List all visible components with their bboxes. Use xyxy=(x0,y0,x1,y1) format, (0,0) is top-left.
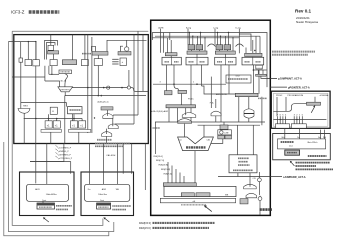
stub bar2 to box5 xyxy=(97,55,99,59)
regfile inner box xyxy=(278,139,326,149)
jumpwait cluster wires xyxy=(254,69,267,71)
arrow bottom center xyxy=(205,206,212,211)
long mux bar gray xyxy=(166,105,196,108)
xor box with circle xyxy=(218,130,232,135)
svg-text:ADR: ADR xyxy=(35,188,40,191)
wide input decode box xyxy=(164,186,236,196)
tiny label under bar xyxy=(181,204,206,206)
wire v x48.9 into decode box xyxy=(48,66,50,75)
tiny label left edge xyxy=(153,127,161,129)
wires from pairs up xyxy=(48,114,50,121)
arc wire between groups 1-2 xyxy=(208,44,216,47)
wire corner x107 to y40.3 xyxy=(107,40,147,51)
register file block border xyxy=(273,134,331,160)
rom labels top xyxy=(276,94,329,97)
gray latch bar 1 xyxy=(48,51,59,54)
footnote line 1 xyxy=(139,222,215,225)
arrow below B xyxy=(104,218,109,222)
bottom wide bar xyxy=(160,198,235,203)
rom cell box 2 xyxy=(291,124,306,128)
wire loop x91-95 xyxy=(92,46,96,51)
free stack text xyxy=(112,59,118,64)
svg-text:RAM[15:0]: RAM[15:0] xyxy=(139,222,151,225)
wire s-curve xyxy=(273,104,306,112)
note text mid xyxy=(95,143,130,146)
svg-text:ADR: ADR xyxy=(102,188,107,191)
wire v x134 xyxy=(133,35,135,124)
mux dome cascade 3 xyxy=(102,132,112,137)
svg-text:INS[15:8]: INS[15:8] xyxy=(161,169,171,171)
INS spine wire xyxy=(155,122,157,154)
rev label Rev 0.1 xyxy=(295,9,318,24)
mux trapezoid xyxy=(58,87,73,92)
regfile drop wires from rom xyxy=(285,128,325,139)
wire h y101 xyxy=(21,103,67,107)
mux dome right xyxy=(244,109,254,113)
register cell box 6b xyxy=(120,58,126,66)
wire into latch from top xyxy=(50,35,52,46)
wire v x91.9 xyxy=(91,37,93,133)
mux dome alu-in 2 xyxy=(178,119,192,124)
label right of B latch xyxy=(112,206,131,210)
rom vert wires xyxy=(277,97,286,116)
dash text bottom right of left block xyxy=(97,139,112,141)
small latch box top xyxy=(48,45,54,50)
rom write bar xyxy=(307,102,321,105)
feedback wire outer left 3 xyxy=(4,142,109,236)
wire inside A xyxy=(42,201,44,203)
label right of A latch xyxy=(56,206,72,210)
mux dome cascade 2 xyxy=(108,124,118,129)
svg-text:Rev 0.1: Rev 0.1 xyxy=(295,9,312,14)
svg-text:CAL-EXH: CAL-EXH xyxy=(106,154,116,157)
svg-text:A-HB: A-HB xyxy=(158,26,164,29)
wire h y87.6 xyxy=(72,87,127,89)
small box under group 3 xyxy=(256,65,262,69)
register cell box 5 xyxy=(94,59,102,66)
feedback wire outer left 2 xyxy=(8,42,113,232)
wire v x72 xyxy=(71,35,73,60)
wire top thin bus left xyxy=(12,30,148,32)
svg-text:PR-NC: PR-NC xyxy=(276,95,283,97)
svg-text:pJUMPWAIT_ACT-A: pJUMPWAIT_ACT-A xyxy=(278,78,302,81)
wire pc bar to mux bar xyxy=(181,94,183,105)
svg-text:A-0B+(26+1): A-0B+(26+1) xyxy=(98,100,109,103)
arrow below ram box xyxy=(291,162,295,166)
wire v x131.7 xyxy=(131,144,133,174)
wires into note box xyxy=(237,125,239,155)
label 8bit adder xyxy=(186,146,206,148)
svg-text:REG: REG xyxy=(23,106,28,108)
operation block label xyxy=(260,208,273,211)
wire stub bar3 xyxy=(120,46,123,51)
decoder down wires xyxy=(72,114,74,121)
register cell box row: box2 xyxy=(33,60,40,66)
svg-text:pCTRLREG_P: pCTRLREG_P xyxy=(59,158,73,160)
svg-text:INS[15:0]: INS[15:0] xyxy=(154,156,164,158)
mux dome bottom-left xyxy=(18,109,30,114)
wire v REG chain xyxy=(20,62,22,108)
mux dome pla xyxy=(211,111,221,116)
bus line y37.8 xyxy=(152,37,239,39)
pin drop wires xyxy=(278,116,303,124)
ALU adder trapezoid xyxy=(178,137,214,151)
wire h y95.6 xyxy=(65,95,146,97)
wire h y118.6 with junction dots xyxy=(24,118,82,120)
svg-text:pOUTREG_P: pOUTREG_P xyxy=(59,147,72,149)
svg-text:ICF3-Z: ICF3-Z xyxy=(11,10,25,15)
svg-text:10bit×4096w: 10bit×4096w xyxy=(46,193,57,196)
sJMP dash xyxy=(258,97,267,99)
INS drop wires with arrows xyxy=(168,162,184,183)
small gray boxes carry xyxy=(218,135,225,139)
wire v x87-88 pair xyxy=(87,35,89,133)
wire v x145.3 xyxy=(144,144,146,191)
memory note box xyxy=(229,155,257,173)
junction dot y87 xyxy=(103,87,105,89)
wire bar up xyxy=(314,97,316,102)
wire mux down xyxy=(64,92,66,96)
wire circle2 stem xyxy=(128,70,130,86)
inner and box 1 xyxy=(181,193,194,197)
INS labels stack xyxy=(154,156,172,176)
regfile top labels xyxy=(282,137,327,139)
register group 2 xyxy=(215,45,236,65)
circle stem xyxy=(126,40,128,47)
bullet notes right xyxy=(296,163,334,170)
arc wire between groups 2-3 xyxy=(236,44,244,47)
svg-text:B-reg: B-reg xyxy=(186,26,192,29)
register group 0 xyxy=(162,53,181,65)
register block label xyxy=(308,155,327,157)
bus line y32.5 xyxy=(153,33,268,88)
svg-text:C-reg: C-reg xyxy=(213,26,219,29)
wire mux output long xyxy=(64,96,66,144)
register cell box row: box1 xyxy=(25,60,32,66)
memory block A border xyxy=(20,172,75,216)
note top-right two lines xyxy=(272,52,315,55)
gray bar small left of pc boxes xyxy=(165,91,173,95)
RAM box xyxy=(285,150,300,155)
stub bar1 to box3 xyxy=(53,54,55,60)
right main block border xyxy=(151,20,271,215)
signal sJUMPADR label xyxy=(218,176,306,179)
small gray box bottom xyxy=(240,199,248,204)
svg-text:8bit×128ch: 8bit×128ch xyxy=(308,141,318,144)
gray latch bar 3 xyxy=(118,52,131,56)
svg-text:PROGRAM-ROM: PROGRAM-ROM xyxy=(288,94,304,97)
wire box1 up xyxy=(27,42,29,60)
svg-text:30..26: 30..26 xyxy=(60,81,67,83)
wire v x44.9 to mux xyxy=(44,66,46,81)
junction dots buses xyxy=(189,32,256,51)
reg drops down xyxy=(167,65,260,122)
out latch box A xyxy=(37,203,55,209)
box top-right in right block xyxy=(226,75,251,83)
bar under pair 2 xyxy=(69,130,91,133)
wire box5 down xyxy=(97,66,99,96)
wire cascade verticals xyxy=(107,110,109,116)
wide gray register box xyxy=(62,60,76,65)
bus h y84.2 xyxy=(153,83,226,85)
left main block border xyxy=(14,35,149,144)
clock circle xyxy=(125,47,129,51)
bus drop wires xyxy=(164,33,261,54)
register group stubs xyxy=(171,40,253,57)
wire jog after circle xyxy=(131,88,149,92)
junction dot cascade xyxy=(94,117,95,118)
register cell box 3 xyxy=(50,60,57,66)
wire box4 up xyxy=(84,35,86,60)
junction circle mid xyxy=(107,86,110,89)
wire jog center xyxy=(202,86,237,94)
signal pJUMPWAIT label xyxy=(267,78,302,81)
bus line y36.2 xyxy=(155,35,260,37)
xor circle cs xyxy=(258,178,262,182)
wire bus y125.2 xyxy=(198,124,260,126)
wires to alu xyxy=(184,124,186,138)
program ROM block inner frame xyxy=(273,93,328,126)
decoder box with text xyxy=(68,107,83,114)
pc gray bar xyxy=(178,90,187,93)
adr bar down wires xyxy=(238,97,240,122)
junction circle mid 2 xyxy=(127,86,130,89)
junction dot decode xyxy=(51,74,52,75)
wire v x21 xyxy=(20,42,22,58)
mux dome cascade 1 xyxy=(103,114,113,119)
wire v x138 xyxy=(137,31,139,115)
s-bend wire to pc bar xyxy=(174,84,178,90)
inner and box 2 xyxy=(196,193,210,197)
wire xor down to alu xyxy=(211,139,223,143)
svg-text:sJUMPADR_ACT-A: sJUMPADR_ACT-A xyxy=(283,176,306,179)
drop wires to block B xyxy=(90,144,118,185)
decode box above mux xyxy=(59,70,72,74)
small box o on wire xyxy=(19,58,23,62)
wire h y41.6 xyxy=(8,42,36,60)
register group 1 xyxy=(186,45,208,65)
wire mux bar drops xyxy=(168,108,170,122)
wire loop outer xyxy=(45,41,58,60)
wire v x123 xyxy=(122,144,124,174)
latch bar mid xyxy=(101,107,113,110)
svg-text:PCNC: PCNC xyxy=(188,98,194,100)
feedback wire outer left 1 xyxy=(12,31,103,225)
wires bars down xyxy=(50,132,52,143)
instruction decoder box small xyxy=(50,107,57,114)
regfile text xyxy=(281,141,294,143)
junction dots y41.6 xyxy=(28,41,29,42)
register cell box 4 xyxy=(82,60,89,66)
svg-text:A-0B+CL(B,0)+A-N2: A-0B+CL(B,0)+A-N2 xyxy=(151,110,168,113)
bus labels A B C D xyxy=(158,26,241,29)
svg-text:pINREG_P: pINREG_P xyxy=(59,151,70,153)
footnote line 2 xyxy=(139,227,209,230)
svg-text:INS[15:8]: INS[15:8] xyxy=(159,165,169,167)
gray latch bar 2 xyxy=(92,52,108,56)
wire v x36 long xyxy=(35,66,37,183)
junction dots on rom bus xyxy=(280,119,281,120)
program ROM block border xyxy=(271,91,330,128)
wire to pla dome xyxy=(210,77,212,108)
input small box 2 xyxy=(200,188,231,192)
wire s-curve box to mux xyxy=(65,74,68,87)
wire bus y122 xyxy=(155,121,265,123)
rom pin digits xyxy=(277,115,304,117)
wire from mgm box down xyxy=(237,173,239,177)
rom cell box 1 xyxy=(276,124,290,128)
svg-text:Dout: Dout xyxy=(100,199,104,202)
register group 3 xyxy=(242,53,264,65)
adder box pair 2 xyxy=(71,121,78,128)
step wire from left block bottom xyxy=(30,144,64,162)
circle bottom xyxy=(258,197,262,201)
rom bus line xyxy=(273,119,326,121)
svg-text:DRA[15:0]: DRA[15:0] xyxy=(139,227,151,230)
svg-text:16bit×1kw: 16bit×1kw xyxy=(98,193,107,196)
svg-text:pPOINTER_ACT-A: pPOINTER_ACT-A xyxy=(288,86,310,89)
label drop wires xyxy=(161,29,240,54)
wire alu output xyxy=(194,151,196,187)
bar under pair 1 xyxy=(41,130,61,133)
bus corner right xyxy=(239,34,251,51)
arrow below A xyxy=(44,218,49,222)
gray bar right adr xyxy=(235,93,258,96)
arrow into bar xyxy=(311,106,315,112)
svg-text:pSYSREG_P: pSYSREG_P xyxy=(59,154,72,156)
svg-text:Dout: Dout xyxy=(289,145,293,148)
title ICF3-Z zentai block zu xyxy=(11,10,59,15)
svg-text:D-reg: D-reg xyxy=(236,26,242,29)
four p-signal labels xyxy=(55,145,72,160)
gray box above xor xyxy=(220,125,228,129)
wire loop inner xyxy=(47,43,56,60)
svg-text:INS[7:0]: INS[7:0] xyxy=(156,160,164,162)
svg-text:Cin: Cin xyxy=(179,139,182,141)
rounded ram box B xyxy=(85,184,130,201)
INS bus bar xyxy=(163,183,196,186)
svg-text:INS[7:4]: INS[7:4] xyxy=(164,173,172,175)
dome d1 xyxy=(244,184,257,189)
signal pPOINTER label xyxy=(270,86,310,89)
input small box 1 xyxy=(174,188,189,192)
wires bottom right xyxy=(250,172,260,215)
wire bar to dome xyxy=(185,108,187,115)
svg-text:sPGM-MA: sPGM-MA xyxy=(320,94,329,97)
rounded ram box A xyxy=(27,184,69,201)
wire v x143 xyxy=(142,35,144,92)
mux dome alu-in 1 xyxy=(182,113,196,118)
label right 2-SFT xyxy=(256,67,262,69)
wire h y77 xyxy=(12,76,45,78)
memory block B border xyxy=(81,172,134,216)
svg-text:Naoki Hirayama: Naoki Hirayama xyxy=(296,20,318,24)
out latch box B xyxy=(97,203,111,209)
gray bar jumpwait xyxy=(256,74,267,76)
tiny label A-reg row xyxy=(82,53,91,55)
dome d2 xyxy=(246,193,257,198)
svg-text:ADR+OLC/D: ADR+OLC/D xyxy=(216,93,228,96)
adder box pair 1 xyxy=(45,121,52,128)
